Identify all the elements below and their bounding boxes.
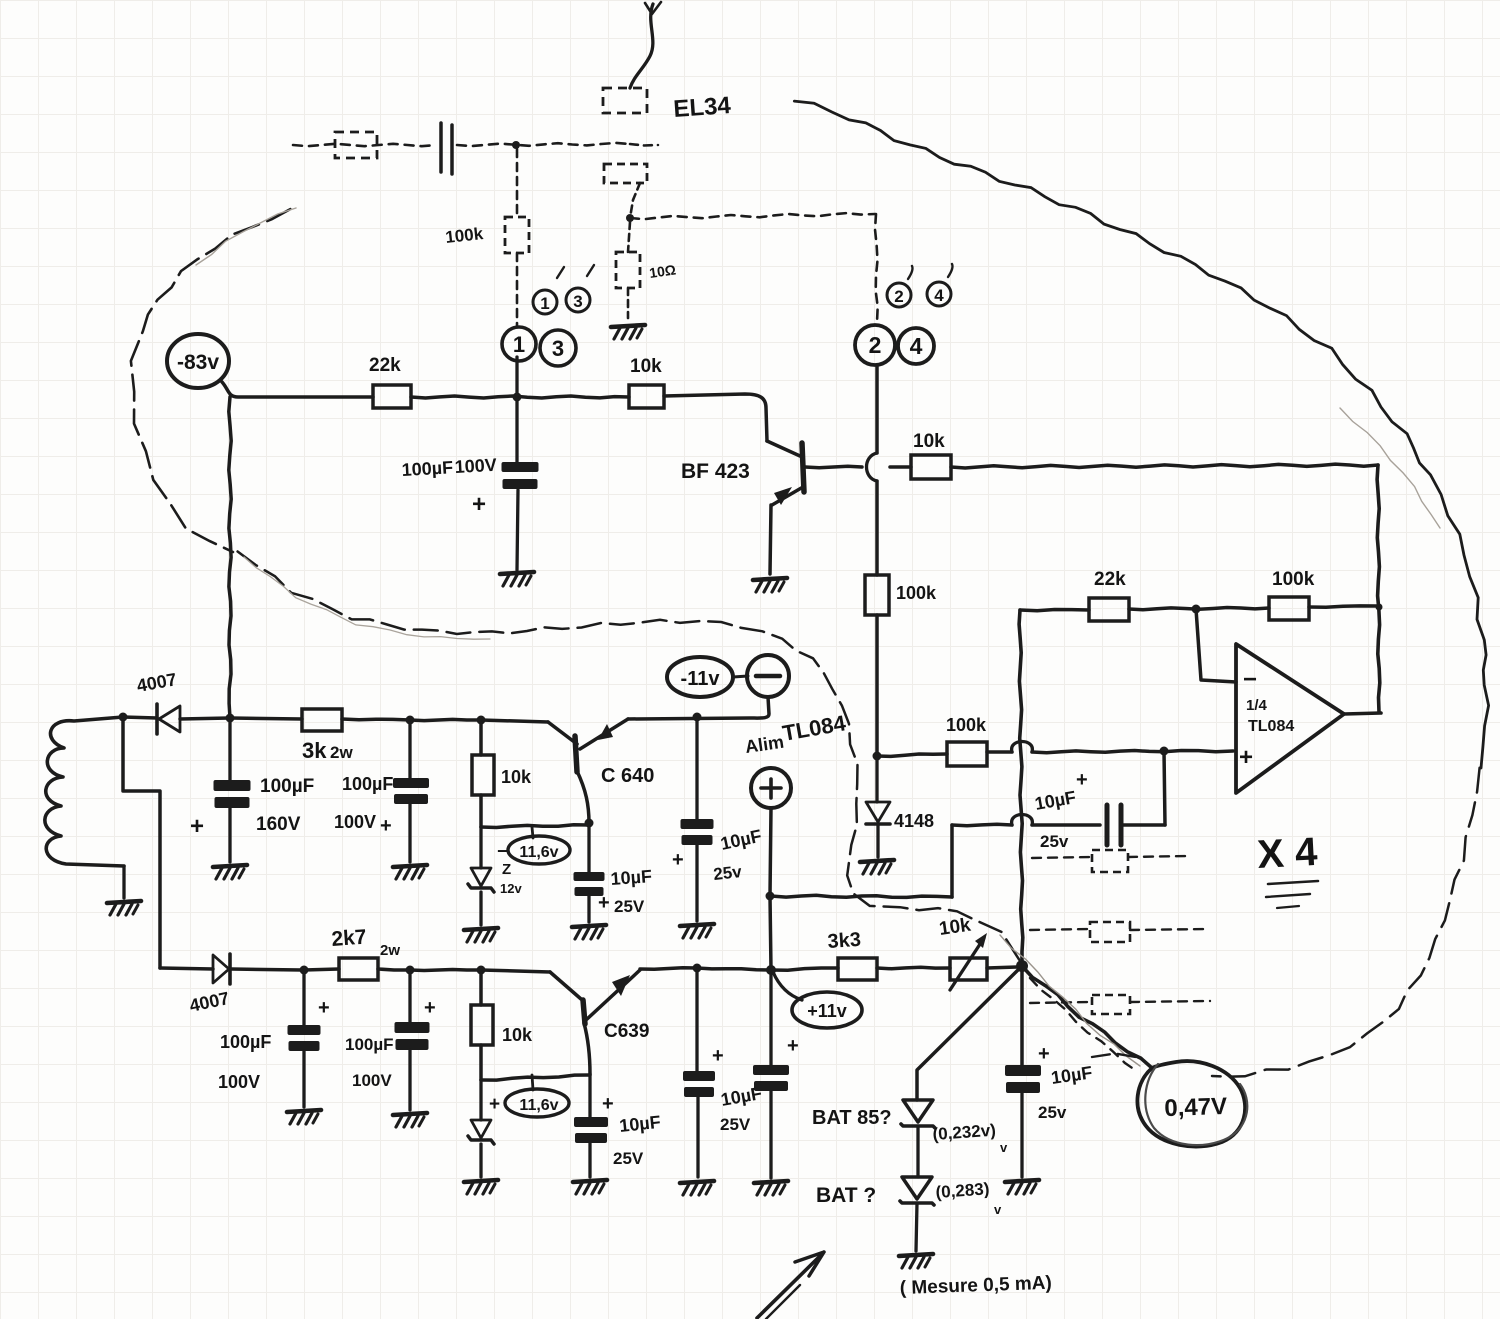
svg-text:+: + (1076, 769, 1088, 791)
label 10k trimmer (938, 915, 973, 940)
ground EL34 cathode (611, 325, 645, 339)
svg-text:10µF: 10µF (610, 866, 653, 889)
wire summing to BAT diodes (917, 966, 1022, 1100)
label minus (1243, 666, 1257, 693)
label 10uF under C639 (602, 1093, 662, 1168)
svg-text:+: + (598, 892, 610, 914)
svg-text:10k: 10k (501, 767, 532, 787)
svg-text:2: 2 (894, 287, 903, 306)
label plus alim cap (787, 1035, 799, 1057)
arrow annotation (757, 1252, 824, 1319)
svg-text:−: − (497, 841, 508, 861)
pin circle small 1 (533, 290, 557, 314)
pin circle 2 (855, 325, 895, 365)
pin circle small 4 (927, 282, 951, 306)
wire -83v to 22k (222, 382, 373, 397)
label EL34 (673, 92, 733, 123)
svg-text:3k: 3k (302, 738, 327, 763)
resistor 3k3 (771, 958, 877, 980)
svg-text:+: + (672, 849, 684, 871)
pin circle small 2 (887, 283, 911, 307)
svg-text:4: 4 (910, 333, 923, 359)
resistor 100k (dashed, grid leak) (505, 149, 529, 326)
resistor 22k (373, 385, 411, 408)
label BAT ? (816, 1184, 876, 1207)
svg-text:12v: 12v (500, 881, 522, 896)
wire dashed screen line y145 (293, 143, 658, 146)
ground cap 100uF100V (500, 572, 534, 586)
svg-text:25v: 25v (712, 862, 743, 884)
label X 4 (1256, 830, 1319, 908)
node lower cap1 (300, 966, 309, 975)
svg-text:+: + (712, 1045, 724, 1067)
node winding top (119, 713, 128, 722)
node lower cap3 (693, 964, 702, 973)
ground cap alim (754, 1181, 788, 1195)
wire 10k to BF423 emitter (664, 394, 767, 441)
node diode/opamp feed (873, 752, 882, 761)
capacitor 100uF 100V (502, 462, 539, 570)
svg-text:3: 3 (552, 336, 564, 361)
label 10R (648, 261, 677, 281)
wire ref y896 (771, 825, 952, 897)
wire 2k7 to C639 (378, 969, 550, 972)
resistor 10k lower (471, 970, 493, 1080)
resistor 10k upper (472, 720, 494, 827)
svg-text:+: + (602, 1093, 614, 1115)
wire C639 base down (584, 1023, 590, 1117)
capacitor 10uF 25V (summing) (1005, 966, 1041, 1177)
node -83v (circle) (167, 334, 229, 388)
pin circle 3 (540, 330, 576, 366)
label 100uF 100V (401, 455, 497, 518)
label 0,232v (932, 1121, 1008, 1155)
wire node to 100k opamp (877, 754, 947, 756)
resistor 2k7 2w (339, 958, 378, 980)
EL34 anode terminal (dashed box) (603, 88, 647, 113)
transistor C639 (550, 970, 640, 1024)
svg-text:11,6v: 11,6v (519, 844, 558, 861)
ground BF423 collector (753, 578, 787, 592)
capacitor 100uF 100V upper (393, 720, 429, 862)
capacitor 10uF 25V (under C640) (574, 872, 605, 922)
resistor 10R dashed (cathode) (616, 222, 640, 318)
resistor 100k (vertical) (865, 575, 889, 615)
label 100uF 100V upper (334, 774, 393, 837)
node summing junction (1016, 960, 1028, 972)
label Z 12v (500, 861, 522, 896)
svg-text:+: + (380, 815, 392, 837)
wire pins24 down with hop (867, 365, 878, 575)
label 22k (369, 355, 401, 376)
svg-text:10k: 10k (938, 915, 973, 940)
diode 4007 lower (160, 954, 302, 984)
capacitor 100uF 160V (214, 718, 251, 862)
wire C640 base down (577, 771, 589, 872)
svg-text:1/4: 1/4 (1246, 697, 1268, 714)
label C 640 (601, 765, 654, 787)
svg-text:2: 2 (869, 332, 882, 358)
wire pin1 down (515, 357, 518, 462)
node 0,47V (blob) (1137, 1061, 1247, 1146)
ground cap 100V upper (393, 865, 427, 879)
node minus terminal (circle) (747, 655, 789, 697)
label 10k (630, 356, 662, 377)
svg-text:100V: 100V (454, 455, 497, 477)
node emitter rail tap (693, 713, 702, 722)
label 10uF under C640 (598, 866, 653, 916)
capacitor 10uF (Alim rail) (753, 1065, 789, 1178)
resistor 100k feedback (1269, 597, 1309, 620)
tick marks (557, 265, 594, 278)
svg-text:+: + (190, 813, 204, 840)
label BF 423 (681, 460, 750, 483)
svg-text:-11v: -11v (681, 668, 721, 690)
diode BAT2 (900, 1177, 934, 1251)
svg-text:4: 4 (934, 286, 944, 305)
svg-text:25v: 25v (1040, 832, 1069, 851)
resistor dashed X4 #2 (1030, 922, 1208, 942)
wire feedback top y609 (1020, 606, 1377, 611)
label 4007 lower (188, 988, 231, 1016)
svg-text:2w: 2w (380, 942, 400, 959)
svg-text:10k: 10k (630, 356, 662, 377)
svg-text:25v: 25v (1038, 1103, 1067, 1122)
label 10uF reference (1033, 769, 1087, 851)
node plus input branch (1160, 747, 1169, 756)
wire vertical -83v feed (229, 397, 231, 718)
node 10k top (477, 716, 486, 725)
label TL084 alim (781, 710, 849, 746)
svg-text:160V: 160V (256, 814, 301, 835)
resistor dashed X4 #3 (1030, 995, 1210, 1014)
label 10uF lower mid (712, 1045, 763, 1134)
transistor BF423 (767, 441, 804, 574)
svg-text:2k7: 2k7 (331, 926, 368, 951)
EL34 grid terminal (dashed box) (604, 164, 647, 218)
node cap100 junction (406, 716, 415, 725)
resistor 10k (bias) (629, 385, 664, 408)
ground cap lower mid (680, 1181, 714, 1195)
svg-text:10k: 10k (502, 1025, 533, 1045)
label 0,283 (935, 1179, 1002, 1217)
node minus branch (1192, 605, 1201, 614)
svg-text:X 4: X 4 (1256, 830, 1319, 877)
svg-text:3k3: 3k3 (827, 929, 862, 953)
wire summing to 0.47V (1022, 966, 1152, 1068)
boundary middle curve (238, 552, 1020, 962)
transistor C640 (548, 722, 577, 772)
label TL084 inside (1248, 718, 1294, 735)
resistor dashed X4 #1 (1032, 850, 1190, 872)
svg-text:0,47V: 0,47V (1164, 1093, 1228, 1122)
node -11.6v (ellipse) (497, 827, 570, 864)
wire winding bottom to ground (122, 866, 125, 898)
ground 4148 (860, 860, 894, 874)
svg-text:BAT ?: BAT ? (816, 1184, 876, 1207)
svg-text:v: v (1000, 1140, 1008, 1155)
node -11v (ellipse) (667, 657, 733, 697)
ground cap 160V (213, 865, 247, 879)
label 4148 (894, 811, 934, 831)
wire -11.6 rail (481, 825, 589, 828)
svg-text:Z: Z (502, 861, 511, 878)
ground lower-b (393, 1113, 427, 1127)
label 100k opamp (946, 715, 987, 735)
wire 22k to 10k (411, 396, 629, 398)
svg-text:+: + (1239, 744, 1253, 771)
ground cap C639 (573, 1180, 607, 1194)
node junction main/cap (513, 393, 522, 402)
wire to 3k2w (230, 718, 302, 719)
svg-text:100V: 100V (334, 812, 376, 832)
label 100k feedback (1272, 569, 1315, 590)
label C639 (604, 1021, 649, 1042)
svg-text:BAT 85?: BAT 85? (812, 1107, 892, 1129)
svg-text:100k: 100k (444, 224, 484, 247)
label 4007 upper (135, 669, 178, 696)
svg-text:+11v: +11v (807, 1001, 847, 1021)
ground cap C640 (572, 925, 606, 939)
svg-text:+: + (472, 491, 486, 518)
svg-text:100µF: 100µF (220, 1032, 271, 1052)
wire integrator vertical (1019, 610, 1023, 966)
svg-text:2w: 2w (330, 743, 353, 762)
node lower 10k top (477, 966, 486, 975)
svg-text:1: 1 (540, 294, 549, 313)
label Alim (744, 732, 785, 757)
svg-text:100µF: 100µF (260, 776, 314, 797)
label 100uF 160V (190, 776, 314, 840)
resistor 3k 2w (302, 709, 342, 731)
svg-text:11,6v: 11,6v (519, 1097, 558, 1114)
label 3k3 (827, 929, 862, 953)
wire opamp output (1344, 713, 1381, 714)
node lower cap2 (406, 966, 415, 975)
ground cap emitter rail (680, 924, 714, 938)
boundary outer bottom-right (1092, 768, 1480, 1077)
svg-text:3: 3 (573, 292, 582, 311)
svg-text:100µF: 100µF (401, 457, 453, 480)
node +11v (ellipse) (773, 972, 862, 1028)
svg-text:EL34: EL34 (673, 92, 733, 123)
capacitor 10uF 25V (reference, vertical plates) (1107, 751, 1165, 845)
svg-text:100µF: 100µF (345, 1035, 394, 1054)
wire Alim vertical (770, 808, 771, 1065)
svg-text:+: + (424, 997, 436, 1019)
label Mesure (899, 1273, 1052, 1299)
resistor 10k trimmer (877, 933, 1018, 990)
svg-text:100k: 100k (896, 583, 937, 603)
svg-text:TL084: TL084 (1248, 718, 1294, 735)
diode BAT85 (901, 1100, 935, 1177)
pin circle 1 (502, 327, 536, 361)
resistor 100k (op-amp input) (947, 742, 987, 766)
diode 4148 (866, 756, 890, 857)
resistor dashed (top left) (335, 132, 377, 158)
svg-text:(0,283): (0,283) (935, 1179, 990, 1202)
label 100uF 100V lower-a (218, 997, 330, 1092)
boundary outer top-right (794, 101, 1488, 768)
wire dashed grid bus to pins 2-4 (630, 213, 878, 322)
label 22k feedback (1094, 569, 1126, 590)
label 100uF 100V lower-b (345, 997, 436, 1090)
node base/cap junction (585, 819, 594, 828)
wire dashed echo to 0.47V (1030, 978, 1138, 1072)
svg-text:-83v: -83v (177, 351, 219, 374)
label 3k2w (302, 738, 353, 763)
ground lower-a (287, 1110, 321, 1124)
svg-text:100V: 100V (352, 1071, 392, 1090)
label 1/4 (1246, 697, 1268, 714)
wire 100k to opamp plus (987, 742, 1233, 753)
pin circle small 3 (566, 288, 590, 312)
svg-text:+: + (787, 1035, 799, 1057)
wire +11.6 rail (481, 1075, 590, 1080)
node Alim/ref junction (766, 892, 775, 901)
wire -11v rail to emitter (580, 697, 769, 749)
svg-text:C639: C639 (604, 1021, 649, 1042)
svg-text:100k: 100k (946, 715, 987, 735)
svg-text:22k: 22k (1094, 569, 1126, 590)
wire feedback right edge (1377, 465, 1380, 712)
svg-text:22k: 22k (369, 355, 401, 376)
node cap160 junction (226, 714, 235, 723)
wire to 2k7 (304, 969, 339, 970)
capacitor 10uF 25V lower mid (683, 968, 715, 1177)
label 10k upper (501, 767, 532, 787)
svg-text:25V: 25V (613, 1149, 644, 1168)
wire link (733, 676, 748, 677)
boundary left arc (131, 208, 296, 552)
label plus (1239, 744, 1253, 771)
node output corner (1376, 604, 1383, 611)
svg-text:25V: 25V (720, 1115, 751, 1134)
wire EL34 plate lead with arrow (630, 2, 661, 88)
zener 12v upper (468, 827, 494, 925)
capacitor 10uF 25V (emitter rail) (681, 717, 714, 921)
svg-text:BF 423: BF 423 (681, 460, 750, 483)
label 10uF summing (1038, 1043, 1094, 1122)
wire base to feedback corner (951, 464, 1378, 468)
boundary grey echo to 0.47V (1000, 935, 1140, 1066)
diode 4007 upper (123, 704, 230, 734)
svg-text:+: + (1038, 1043, 1050, 1065)
svg-text:v: v (994, 1202, 1002, 1217)
svg-text:100µF: 100µF (342, 774, 393, 794)
capacitor 10uF 25V (under C639) (574, 1117, 608, 1177)
ground transformer (107, 901, 141, 915)
ground cap summing (1005, 1180, 1039, 1194)
svg-text:25V: 25V (614, 897, 645, 916)
wire 100k down to node (875, 615, 879, 756)
capacitor coupling (two bars) (441, 123, 452, 174)
svg-text:−: − (1243, 666, 1257, 693)
wire 3k2w to caps (342, 719, 548, 722)
label 10k lower (502, 1025, 533, 1045)
zener lower (468, 1080, 494, 1177)
transformer winding (45, 717, 124, 866)
ground zener upper (464, 928, 498, 942)
svg-text:4148: 4148 (894, 811, 934, 831)
pin circle 4 (898, 328, 934, 364)
node Alim plus (circle) (751, 768, 791, 808)
svg-text:1: 1 (513, 332, 525, 357)
label 10uF emitter rail (672, 826, 763, 884)
node grid junction (626, 214, 634, 222)
svg-text:100k: 100k (1272, 569, 1315, 590)
wire C639 emitter rail (640, 968, 771, 970)
node Alim/rail junction (766, 965, 776, 975)
op-amp U1 TL084 (1196, 609, 1344, 793)
label 100k vertical (896, 583, 937, 603)
svg-text:C 640: C 640 (601, 765, 654, 787)
wire winding tap to lower rail (123, 717, 160, 968)
capacitor 100uF 100V lower-b (395, 970, 430, 1110)
resistor 10k (base) (911, 455, 951, 479)
ground zener lower (464, 1180, 498, 1194)
resistor 22k feedback (1089, 598, 1129, 621)
svg-text:10k: 10k (913, 431, 945, 452)
label 10k base (913, 431, 945, 452)
svg-text:100V: 100V (218, 1072, 260, 1092)
svg-text:+: + (489, 1094, 500, 1115)
node +11.6v (ellipse) (489, 1075, 569, 1117)
ground BAT diodes (899, 1254, 933, 1268)
node screen junction (512, 141, 520, 149)
tick marks right (908, 264, 953, 279)
label BAT 85? (812, 1107, 892, 1129)
label 2k7 2w (331, 926, 401, 959)
wire BF423 base (805, 466, 911, 468)
wire ref y825 with hop (952, 815, 1100, 826)
capacitor 100uF 100V lower-a (288, 970, 321, 1107)
label 100k (444, 224, 484, 247)
svg-text:+: + (318, 997, 330, 1019)
